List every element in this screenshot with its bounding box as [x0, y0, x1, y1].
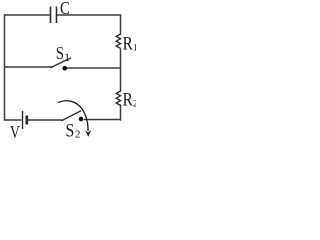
switch S2 contact dot [79, 117, 84, 122]
wire middle left segment [5, 66, 52, 68]
wire bottom right segment (S2 to corner) [85, 119, 121, 121]
svg-text:S: S [56, 43, 64, 63]
switch S2 motion arc with arrow [58, 101, 88, 131]
switch S2 arrow head [85, 130, 91, 137]
svg-text:R: R [123, 89, 133, 110]
wire bottom left segment (corner to battery) [5, 119, 22, 121]
battery V long plate [22, 111, 24, 129]
svg-text:1: 1 [64, 52, 70, 64]
svg-text:S: S [66, 121, 75, 139]
resistor R1 zigzag [116, 34, 120, 48]
switch S1 contact dot [63, 66, 68, 71]
wire right vertical upper (top corner to R1) [120, 15, 122, 34]
switch S1 blade [51, 58, 71, 68]
svg-text:1: 1 [133, 44, 136, 54]
svg-text:R: R [123, 33, 133, 54]
wire right vertical middle (R1 to R2) [120, 49, 122, 91]
svg-text:V: V [10, 122, 20, 139]
wire right vertical lower (R2 to bottom corner) [120, 105, 122, 120]
svg-text:2: 2 [133, 100, 136, 110]
wire top left segment [5, 14, 51, 16]
switch S2 blade [62, 111, 81, 121]
capacitor C plates [51, 7, 57, 24]
wire bottom middle segment (battery to S2) [28, 119, 62, 121]
resistor R2 zigzag [116, 91, 120, 105]
svg-text:C: C [60, 0, 70, 18]
wire top right segment [57, 14, 121, 16]
wire left vertical [4, 15, 6, 120]
wire middle right segment [67, 67, 121, 69]
svg-text:2: 2 [75, 129, 81, 139]
battery V short thick plate [25, 116, 28, 125]
